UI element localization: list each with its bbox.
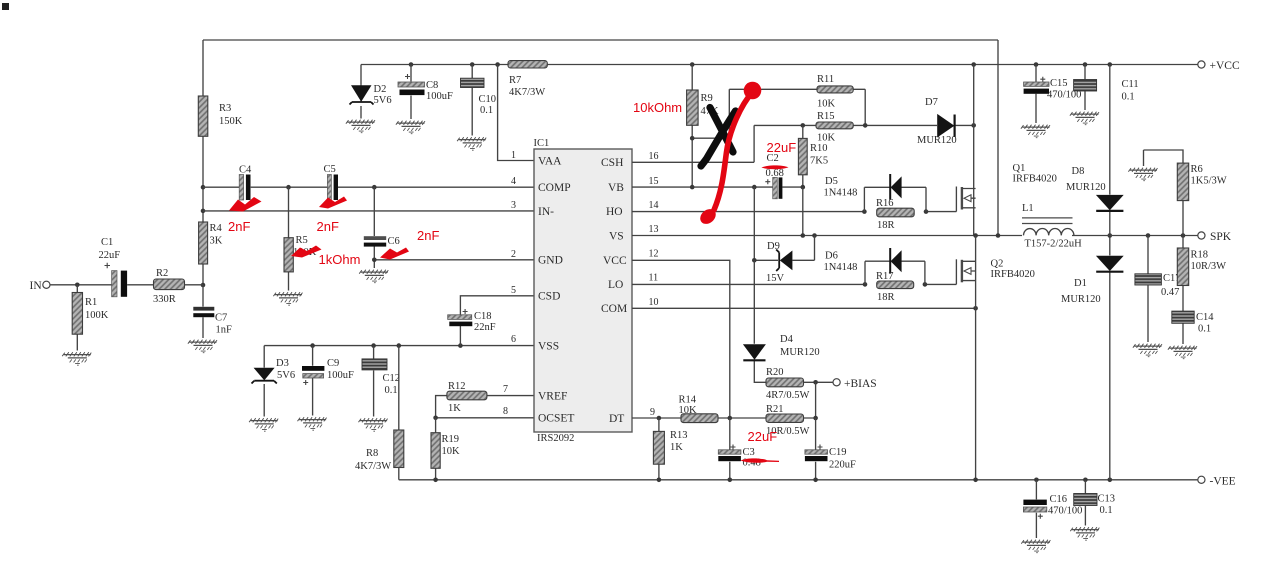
resistor R17 xyxy=(877,281,914,289)
svg-text:L1: L1 xyxy=(1022,203,1034,214)
junction Q2 source xyxy=(973,306,978,311)
resistor R3 xyxy=(198,96,208,136)
junction D5 right xyxy=(924,209,929,214)
wire IN- line xyxy=(203,210,534,212)
junction R21 right xyxy=(813,416,818,421)
junction COMP/203 xyxy=(201,185,206,190)
svg-text:R8: R8 xyxy=(366,448,378,459)
junction C12 on VSS xyxy=(371,343,376,348)
svg-text:C19: C19 xyxy=(829,447,847,458)
capacitor C16 electrolytic xyxy=(1023,480,1046,538)
svg-text:R9: R9 xyxy=(701,93,713,104)
svg-text:R20: R20 xyxy=(766,367,784,378)
capacitor C10 xyxy=(461,65,485,136)
wire R9 to R11 link xyxy=(692,89,729,138)
svg-text:C10: C10 xyxy=(479,94,497,105)
ground under C9 xyxy=(298,417,327,430)
capacitor C12 xyxy=(362,346,387,417)
junction C17 xyxy=(1146,233,1151,238)
junction R8 on VSS xyxy=(397,343,402,348)
svg-text:0.68: 0.68 xyxy=(766,168,784,179)
red scribble under C6 xyxy=(380,248,409,260)
wire COM to -VEE drop xyxy=(975,308,977,480)
svg-text:R19: R19 xyxy=(442,434,460,445)
resistor R15 xyxy=(816,122,853,129)
junction OCSET/R19 xyxy=(433,416,438,421)
svg-text:R17: R17 xyxy=(876,271,894,282)
ground near R6 xyxy=(1128,168,1157,181)
junction D6 left xyxy=(863,282,868,287)
ground under C16 xyxy=(1021,540,1050,553)
red strike over C3 value xyxy=(741,458,780,462)
capacitor C13 xyxy=(1074,480,1097,526)
svg-text:1nF: 1nF xyxy=(216,325,233,336)
junction C6 top xyxy=(372,185,377,190)
junction R6/R18 xyxy=(1181,233,1186,238)
junction R9 bottom on VB xyxy=(690,185,695,190)
wire GND pin2 line xyxy=(374,260,534,268)
resistor R11 xyxy=(729,86,865,126)
red annotation 10kOhm xyxy=(633,100,682,115)
capacitor C5 (series) xyxy=(327,175,338,201)
resistor R10 xyxy=(798,125,807,187)
svg-text:3K: 3K xyxy=(210,236,223,247)
black X scribble xyxy=(701,108,736,167)
svg-text:R3: R3 xyxy=(219,103,231,114)
capacitor C15 electrolytic xyxy=(1024,65,1049,124)
svg-text:CSH: CSH xyxy=(601,157,623,169)
svg-text:IC1: IC1 xyxy=(534,138,550,149)
svg-text:DT: DT xyxy=(609,413,624,425)
ground under C11 xyxy=(1070,112,1099,125)
svg-text:22uF: 22uF xyxy=(748,429,778,444)
svg-text:C15: C15 xyxy=(1050,78,1068,89)
red annotation 2nF at C5 xyxy=(317,219,339,234)
capacitor C4 (series) xyxy=(239,175,250,201)
capacitor C18 electrolytic xyxy=(448,309,473,326)
svg-text:1K: 1K xyxy=(448,403,461,414)
ground under C15 xyxy=(1021,125,1050,138)
ground under C7 xyxy=(188,340,217,353)
junction D5 left xyxy=(862,209,867,214)
junction x803 on VS xyxy=(801,233,806,238)
ground under R5 xyxy=(273,292,302,305)
wire high-side sense line y125.4 xyxy=(754,125,974,162)
svg-text:D1: D1 xyxy=(1074,278,1087,289)
wire COM pin10 line xyxy=(632,307,976,309)
resistor R21 xyxy=(766,414,804,422)
svg-text:SPK: SPK xyxy=(1210,231,1232,243)
svg-text:0.47: 0.47 xyxy=(1161,287,1179,298)
svg-text:CSD: CSD xyxy=(538,291,560,303)
svg-text:22uF: 22uF xyxy=(767,140,797,155)
resistor R5 xyxy=(284,187,293,290)
wire x203 inverting node vertical xyxy=(202,136,204,285)
resistor R14 xyxy=(681,414,718,423)
svg-text:R11: R11 xyxy=(817,74,834,85)
svg-text:7: 7 xyxy=(503,384,508,395)
wire VCC pin12 line xyxy=(632,260,730,418)
svg-text:11: 11 xyxy=(649,273,659,284)
zener D2 xyxy=(350,85,374,119)
diode D5 loop xyxy=(864,187,926,211)
resistor R6 with ground arm xyxy=(1144,150,1189,236)
transistor Q1 MOSFET xyxy=(956,187,975,212)
svg-text:GND: GND xyxy=(538,255,563,267)
svg-text:R12: R12 xyxy=(448,381,466,392)
svg-text:+BIAS: +BIAS xyxy=(844,378,877,390)
capacitor C17 xyxy=(1135,236,1162,343)
red marker stroke xyxy=(697,82,761,227)
svg-text:MUR120: MUR120 xyxy=(1061,294,1101,305)
junction BIAS/R21 riser xyxy=(813,380,818,385)
svg-text:1K5/3W: 1K5/3W xyxy=(1191,176,1227,187)
zener D3 xyxy=(252,368,277,417)
capacitor C14 xyxy=(1172,311,1194,344)
junction COM drop xyxy=(973,478,978,483)
wire VS pin13 line xyxy=(632,235,1022,237)
resistor R13 xyxy=(653,418,664,480)
diode D8 xyxy=(1096,195,1124,211)
svg-text:C18: C18 xyxy=(474,311,492,322)
corner artifact mark xyxy=(2,3,9,10)
wire VB to D9 riser x754 xyxy=(753,187,755,260)
svg-text:4K7/3W: 4K7/3W xyxy=(355,461,391,472)
diode D4 xyxy=(743,260,766,382)
resistor R1 xyxy=(72,285,82,351)
wire COMP line xyxy=(203,186,534,188)
svg-text:R18: R18 xyxy=(1191,250,1209,261)
junction link xyxy=(690,136,695,141)
junction D7 riser xyxy=(971,62,976,67)
wire HO pin14 line xyxy=(632,211,956,213)
svg-text:470/100: 470/100 xyxy=(1048,506,1082,517)
junction R10 top xyxy=(801,123,806,128)
svg-text:Q2: Q2 xyxy=(991,259,1004,270)
ground under D3 xyxy=(249,418,278,431)
junction IN-/203 xyxy=(201,209,206,214)
junction R5 top xyxy=(286,185,291,190)
svg-text:R1: R1 xyxy=(85,297,97,308)
svg-text:D3: D3 xyxy=(276,358,289,369)
svg-text:100uF: 100uF xyxy=(327,370,354,381)
junction R19 bottom xyxy=(433,478,438,483)
junction C2 left / D9 riser xyxy=(752,185,757,190)
svg-text:IRS2092: IRS2092 xyxy=(537,433,574,444)
IC U1 IRS2092 body xyxy=(534,149,632,432)
junction VAA drop xyxy=(495,62,500,67)
resistor R8 xyxy=(394,346,404,480)
svg-text:IRFB4020: IRFB4020 xyxy=(1013,174,1057,185)
svg-text:2: 2 xyxy=(511,249,516,260)
terminal +VCC xyxy=(1198,61,1205,68)
svg-text:C16: C16 xyxy=(1050,494,1068,505)
svg-text:10K: 10K xyxy=(817,99,836,110)
svg-text:5: 5 xyxy=(511,285,516,296)
svg-text:R6: R6 xyxy=(1191,164,1203,175)
svg-text:C12: C12 xyxy=(383,373,401,384)
capacitor C8 electrolytic xyxy=(398,65,425,120)
svg-text:D8: D8 xyxy=(1072,166,1085,177)
svg-text:1N4148: 1N4148 xyxy=(824,262,858,273)
wire feedback rail net A (SPK to R3 top) xyxy=(203,40,998,236)
wire OCSET pin8 xyxy=(436,417,534,419)
junction D9/VCC xyxy=(752,258,757,263)
red annotation 22uF xyxy=(767,140,797,155)
svg-text:R10: R10 xyxy=(810,143,828,154)
svg-text:22nF: 22nF xyxy=(474,322,496,333)
zener D9 xyxy=(754,236,814,272)
svg-text:330R: 330R xyxy=(153,294,176,305)
capacitor C6 xyxy=(364,187,386,260)
junction C6 bottom xyxy=(372,258,377,263)
diode D7 xyxy=(937,114,954,138)
svg-text:2nF: 2nF xyxy=(228,219,250,234)
capacitor C3 electrolytic xyxy=(718,418,741,480)
wire CSD pin5 with capacitor C18 xyxy=(460,296,534,346)
junction Q1 source / Q2 drain xyxy=(973,233,978,238)
junction feedback rail xyxy=(996,233,1001,238)
junction D8 on SPK xyxy=(1108,233,1113,238)
red annotation 2nF at C4 xyxy=(228,219,250,234)
resistor R18 xyxy=(1177,236,1188,312)
red strike over C2 value xyxy=(762,165,789,169)
resistor R9 xyxy=(687,65,699,188)
diode D1 xyxy=(1096,256,1124,272)
svg-text:C4: C4 xyxy=(239,165,252,176)
svg-text:C8: C8 xyxy=(426,80,438,91)
svg-text:C11: C11 xyxy=(1122,79,1139,90)
junction R11 right xyxy=(863,123,868,128)
svg-text:C1: C1 xyxy=(101,237,113,248)
svg-text:COM: COM xyxy=(601,303,627,315)
wire +VCC top rail xyxy=(361,65,1198,85)
junction R13 top xyxy=(657,416,662,421)
ground under C10 xyxy=(457,137,486,150)
wire CSH pin16 line xyxy=(632,161,754,163)
wire D8/D1 drop from VCC rail xyxy=(1109,65,1111,480)
svg-text:3: 3 xyxy=(511,200,516,211)
red scribble under C5 xyxy=(319,197,347,209)
wire -VEE bottom rail xyxy=(399,479,1198,481)
svg-text:0.1: 0.1 xyxy=(1122,92,1135,103)
capacitor C1 electrolytic (series) xyxy=(105,263,154,297)
junction VCC drop / C3 xyxy=(728,416,733,421)
resistor R16 xyxy=(877,208,915,217)
resistor R2 (series) xyxy=(154,279,204,290)
svg-text:COMP: COMP xyxy=(538,182,571,194)
terminal +BIAS xyxy=(833,379,840,386)
svg-text:C9: C9 xyxy=(327,358,339,369)
svg-text:0.1: 0.1 xyxy=(480,105,493,116)
svg-text:8: 8 xyxy=(503,406,508,417)
svg-text:D4: D4 xyxy=(780,334,794,345)
ground under C14 xyxy=(1168,346,1197,359)
svg-text:+VCC: +VCC xyxy=(1210,60,1240,72)
svg-text:IRFB4020: IRFB4020 xyxy=(991,269,1035,280)
resistor R20 xyxy=(766,378,833,387)
inductor L1 xyxy=(1022,218,1074,236)
junction C9 on VSS xyxy=(310,343,315,348)
red scribble under C4 xyxy=(229,197,262,212)
svg-text:R14: R14 xyxy=(679,395,697,406)
svg-text:10kOhm: 10kOhm xyxy=(633,100,682,115)
junction R1 xyxy=(75,283,80,288)
svg-text:100K: 100K xyxy=(85,310,109,321)
svg-text:R5: R5 xyxy=(296,235,308,246)
svg-text:10K: 10K xyxy=(817,133,836,144)
terminal -VEE xyxy=(1198,476,1205,483)
svg-text:VREF: VREF xyxy=(538,391,567,403)
svg-text:OCSET: OCSET xyxy=(538,413,574,425)
diode D6 xyxy=(890,248,901,274)
red annotation 22uF xyxy=(748,429,778,444)
junction input node xyxy=(201,283,206,288)
resistor R4 xyxy=(199,222,208,264)
wire BIAS riser xyxy=(815,382,817,418)
svg-text:D5: D5 xyxy=(825,176,838,187)
junction D7 cathode riser xyxy=(971,123,976,128)
junction C3 bottom xyxy=(728,478,733,483)
svg-text:1K: 1K xyxy=(670,442,683,453)
junction C13 xyxy=(1083,478,1088,483)
svg-text:VSS: VSS xyxy=(538,341,559,353)
svg-text:R21: R21 xyxy=(766,404,784,415)
svg-text:10R/3W: 10R/3W xyxy=(1191,261,1227,272)
svg-text:14: 14 xyxy=(649,200,659,211)
svg-text:9: 9 xyxy=(650,407,655,418)
svg-text:6: 6 xyxy=(511,334,516,345)
junction C19 bottom xyxy=(813,478,818,483)
junction D1 bottom xyxy=(1108,478,1113,483)
svg-text:C7: C7 xyxy=(215,313,227,324)
capacitor C2 electrolytic (bootstrap) xyxy=(765,177,782,198)
wire LO pin11 line xyxy=(632,283,956,285)
svg-text:MUR120: MUR120 xyxy=(917,135,957,146)
svg-text:Q1: Q1 xyxy=(1013,163,1026,174)
svg-text:10K: 10K xyxy=(442,446,461,457)
wire SPK line right xyxy=(1072,235,1198,237)
wire VREF pin7 xyxy=(436,396,534,418)
svg-text:1: 1 xyxy=(511,150,516,161)
junction D8 drop xyxy=(1108,62,1113,67)
terminal IN xyxy=(43,281,112,288)
ground GND pin2 xyxy=(359,270,388,283)
value 0.68 struck xyxy=(766,168,784,179)
svg-text:C14: C14 xyxy=(1196,312,1214,323)
wire VSS line xyxy=(264,346,534,368)
svg-text:-VEE: -VEE xyxy=(1210,476,1236,488)
capacitor C11 xyxy=(1074,65,1097,111)
svg-text:0.1: 0.1 xyxy=(1100,505,1113,516)
svg-text:R2: R2 xyxy=(156,268,168,279)
svg-text:18R: 18R xyxy=(877,220,895,231)
svg-text:VB: VB xyxy=(608,182,624,194)
svg-text:7K5: 7K5 xyxy=(810,156,828,167)
svg-text:D2: D2 xyxy=(374,84,387,95)
wire D7 riser to VCC rail and Q1 drain xyxy=(973,65,975,236)
svg-text:4K7/3W: 4K7/3W xyxy=(509,87,545,98)
junction R9 top xyxy=(690,62,695,67)
junction C8 on VCC rail xyxy=(409,62,414,67)
svg-text:0.1: 0.1 xyxy=(385,385,398,396)
svg-text:12: 12 xyxy=(649,249,659,260)
svg-text:C6: C6 xyxy=(388,236,400,247)
svg-text:0.1: 0.1 xyxy=(1198,324,1211,335)
svg-text:MUR120: MUR120 xyxy=(780,347,820,358)
svg-text:5V6: 5V6 xyxy=(277,370,295,381)
ground under D2 xyxy=(346,120,375,133)
svg-text:4: 4 xyxy=(511,176,516,187)
svg-text:C3: C3 xyxy=(743,447,755,458)
svg-text:R13: R13 xyxy=(670,430,688,441)
wire VB/VS riser x803 xyxy=(802,187,804,235)
diode D6 loop xyxy=(865,261,925,284)
junction C10 on VCC rail xyxy=(470,62,475,67)
wire VAA pin1 drop xyxy=(498,65,534,161)
svg-text:10: 10 xyxy=(649,297,659,308)
svg-text:VAA: VAA xyxy=(538,156,562,168)
red annotation 2nF at C6 xyxy=(417,228,439,243)
svg-text:LO: LO xyxy=(608,279,623,291)
svg-text:220uF: 220uF xyxy=(829,460,856,471)
svg-text:D7: D7 xyxy=(925,97,938,108)
svg-text:15: 15 xyxy=(649,176,659,187)
svg-text:R7: R7 xyxy=(509,75,521,86)
svg-text:5V6: 5V6 xyxy=(374,95,392,106)
resistor R7 (in series on VCC rail) xyxy=(508,61,547,68)
svg-text:VS: VS xyxy=(609,231,624,243)
svg-text:MUR120: MUR120 xyxy=(1066,182,1106,193)
wire DT pin9 line xyxy=(632,417,816,419)
svg-text:22uF: 22uF xyxy=(99,250,121,261)
red scribble over R5 value xyxy=(291,246,322,258)
svg-text:15V: 15V xyxy=(766,273,785,284)
svg-text:IN: IN xyxy=(30,280,43,292)
svg-text:1kOhm: 1kOhm xyxy=(319,252,361,267)
svg-text:T157-2/22uH: T157-2/22uH xyxy=(1025,239,1083,250)
junction C15 xyxy=(1034,62,1039,67)
junction C11 xyxy=(1083,62,1088,67)
svg-text:2nF: 2nF xyxy=(417,228,439,243)
ground under C13 xyxy=(1070,527,1099,540)
svg-text:1N4148: 1N4148 xyxy=(824,188,858,199)
svg-text:D6: D6 xyxy=(825,251,838,262)
svg-text:10K: 10K xyxy=(679,405,698,416)
diode D5 xyxy=(890,174,901,200)
wire VB pin15 line xyxy=(632,186,803,188)
svg-text:4R7/0.5W: 4R7/0.5W xyxy=(766,390,810,401)
svg-text:R15: R15 xyxy=(817,111,835,122)
svg-text:IN-: IN- xyxy=(538,206,554,218)
resistor R19 xyxy=(431,418,440,480)
svg-text:2nF: 2nF xyxy=(317,219,339,234)
junction C18 on VSS xyxy=(458,343,463,348)
ground under C17 xyxy=(1133,344,1162,357)
terminal SPK xyxy=(1198,232,1205,239)
capacitor C19 electrolytic xyxy=(805,418,828,480)
junction D9 anode riser xyxy=(812,233,817,238)
svg-text:13: 13 xyxy=(649,224,659,235)
svg-text:18R: 18R xyxy=(877,292,895,303)
resistor R12 xyxy=(447,391,487,400)
junction C16 xyxy=(1034,478,1039,483)
junction D6 right xyxy=(923,282,928,287)
capacitor C7 xyxy=(193,285,214,338)
svg-text:HO: HO xyxy=(606,206,623,218)
capacitor C9 electrolytic xyxy=(302,346,324,416)
svg-text:C13: C13 xyxy=(1098,494,1116,505)
